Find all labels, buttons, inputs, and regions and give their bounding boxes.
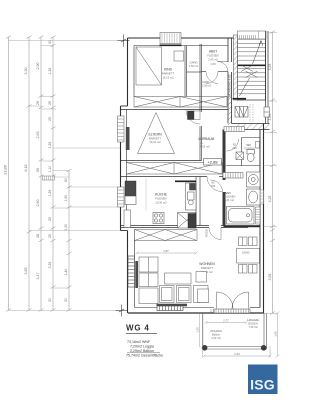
svg-text:PARKETT: PARKETT — [162, 72, 175, 76]
svg-text:6,18: 6,18 — [24, 165, 28, 172]
ISG logo — [248, 365, 278, 395]
outer wall left lower segment — [127, 231, 129, 314]
wall stair landing bottom y123.5 — [232, 124, 270, 130]
bath sink — [247, 189, 261, 205]
wall Kind/Eltern y109.5 — [121, 109, 229, 111]
window W5 bottom wall (Wohnen) — [157, 306, 183, 311]
living room door arc — [209, 228, 221, 240]
Abst room label — [207, 50, 218, 67]
outer wall left upper segment — [127, 38, 129, 106]
Kind room label — [162, 68, 175, 80]
stair bottom dark edge — [233, 98, 247, 100]
svg-text:75,74m2 Gesamtfläche: 75,74m2 Gesamtfläche — [126, 354, 163, 358]
left dimension chain line 4 — [51, 36, 56, 312]
svg-text:1,25: 1,25 — [195, 327, 199, 333]
french door threshold band bottom wall — [211, 309, 250, 313]
dimension extension line bottom — [9, 310, 117, 312]
svg-text:5,01 m2: 5,01 m2 — [225, 198, 235, 202]
right chain extension lines — [264, 33, 278, 314]
towel radiator — [256, 207, 261, 224]
radiator corridor top — [224, 127, 245, 132]
staircase treads — [238, 39, 266, 94]
chain connectors — [29, 46, 118, 289]
svg-text:2,60: 2,60 — [36, 200, 40, 207]
dining chairs top — [239, 237, 258, 246]
sum rule — [127, 352, 160, 354]
WC vent window — [256, 142, 260, 149]
svg-text:10,30 m2: 10,30 m2 — [155, 201, 167, 205]
kitchen east wall — [196, 177, 200, 226]
radiator bar Wohnen (dark) — [135, 261, 138, 288]
radiator bath — [223, 173, 243, 179]
svg-text:13,91 m2: 13,91 m2 — [149, 140, 161, 144]
right lower dim line — [276, 312, 280, 358]
smoke vent dashed lines — [250, 104, 253, 122]
svg-text:ISG: ISG — [250, 377, 275, 393]
svg-text:1,50: 1,50 — [210, 62, 216, 66]
svg-text:1,40: 1,40 — [273, 331, 277, 337]
svg-text:+2,88: +2,88 — [207, 160, 218, 165]
staircase outline — [238, 35, 266, 100]
Kind table square — [174, 51, 184, 61]
outer wall bottom — [128, 312, 264, 314]
landing bottom wall hatch — [234, 124, 270, 130]
sideboard band (crossed) living — [135, 230, 198, 241]
svg-text:60: 60 — [64, 178, 68, 182]
mini window symbol in dim area — [43, 176, 55, 180]
WC left wall — [241, 138, 243, 167]
armchair 1 — [196, 272, 207, 283]
window right wall bath — [260, 190, 264, 204]
party wall to staircase (right upper) — [228, 38, 232, 124]
staircase mid landing dark line — [238, 65, 266, 67]
shaft box cluster in landing — [235, 107, 248, 118]
kitchen dark appliance — [188, 214, 196, 229]
svg-text:KIND: KIND — [164, 68, 173, 72]
svg-text:25: 25 — [48, 101, 52, 105]
svg-text:1,35: 1,35 — [48, 142, 52, 149]
Loggia label — [247, 318, 259, 329]
svg-text:2,43: 2,43 — [234, 352, 240, 356]
left wall lower inner face — [134, 230, 136, 308]
svg-text:KÜCHE: KÜCHE — [155, 193, 168, 197]
svg-text:PARKETT: PARKETT — [149, 137, 162, 141]
radiator bar Eltern (dark) — [126, 127, 130, 150]
shaft box corridor — [236, 152, 244, 160]
outer wall top inner face — [134, 45, 228, 47]
dimension cross marker top-left — [118, 35, 130, 47]
svg-text:FLIESEN: FLIESEN — [155, 197, 166, 201]
loggia right edge — [264, 313, 267, 349]
svg-text:25: 25 — [48, 117, 52, 121]
svg-text:25: 25 — [48, 217, 52, 221]
stove 4 burners — [153, 213, 164, 224]
wall kitchen/living y226.5 with door opening — [121, 226, 261, 228]
kitchen lower counter hatched — [178, 213, 197, 229]
staircase top wall band — [238, 31, 267, 39]
svg-text:BODEN: BODEN — [248, 322, 257, 326]
floor level box +2,88 — [204, 159, 222, 166]
coffee table — [165, 273, 192, 284]
left wall middle inner face — [126, 110, 128, 226]
kitchen interior dim line — [145, 178, 147, 211]
Kueche door arc — [207, 177, 222, 192]
loggia post left — [202, 345, 208, 351]
kitchen fridge block dark — [125, 181, 136, 205]
left dimension chain line 5 — [67, 169, 72, 312]
right dimension chain — [270, 31, 275, 315]
svg-text:WOHNEN: WOHNEN — [199, 262, 215, 266]
svg-text:3,47: 3,47 — [36, 273, 40, 280]
staircase left wall hatched band — [234, 35, 238, 100]
dimension cross marker bottom-left — [116, 305, 128, 317]
left dimension chain line 2 — [27, 36, 32, 312]
svg-text:1,10: 1,10 — [48, 166, 52, 173]
svg-text:1,55: 1,55 — [268, 114, 272, 121]
Eltern bottom wall y160.5 — [121, 160, 202, 162]
outer wall right lower — [260, 124, 264, 314]
svg-text:30: 30 — [48, 298, 52, 302]
svg-text:WOHNEN: WOHNEN — [210, 329, 222, 333]
svg-text:3,30: 3,30 — [24, 68, 28, 75]
loggia dim line horizontal — [205, 321, 248, 324]
svg-text:LOGGIA: LOGGIA — [247, 318, 259, 322]
Vorraum label — [198, 137, 215, 148]
svg-text:2,90: 2,90 — [36, 63, 40, 70]
wall jog at y106 — [121, 105, 128, 107]
left dimension chain line 3 — [39, 36, 44, 312]
svg-text:30: 30 — [64, 298, 68, 302]
svg-text:ELTERN: ELTERN — [148, 133, 162, 137]
bathtub — [227, 207, 255, 225]
dining table — [237, 249, 260, 264]
svg-text:50: 50 — [36, 168, 40, 172]
svg-text:2,05 m2: 2,05 m2 — [202, 85, 212, 88]
Eltern door arc — [186, 110, 200, 124]
corridor left wall — [200, 72, 202, 161]
window sill dark living — [157, 304, 188, 307]
loggia area small label — [210, 329, 222, 340]
svg-text:FLIESEN: FLIESEN — [207, 54, 218, 58]
svg-text:BAD: BAD — [225, 191, 232, 195]
svg-text:FL.: FL. — [200, 141, 204, 145]
svg-text:WG 4: WG 4 — [126, 324, 150, 333]
left wall upper inner face — [133, 46, 135, 97]
svg-text:2,63: 2,63 — [36, 132, 40, 139]
wardrobe band Kind (crossed) — [134, 97, 227, 108]
svg-text:160/90: 160/90 — [242, 252, 250, 255]
svg-text:Balkon: Balkon — [212, 333, 220, 337]
svg-text:VORRAUM: VORRAUM — [198, 137, 215, 141]
svg-text:3,55: 3,55 — [268, 274, 272, 281]
window W1 in top wall — [160, 33, 182, 46]
wall Eltern/Kueche y176.5 with door opening — [121, 176, 224, 178]
loggia railing bottom — [203, 347, 267, 350]
svg-text:73,16m2 WNF: 73,16m2 WNF — [127, 340, 151, 344]
svg-text:25: 25 — [36, 101, 40, 105]
dimension extension line top — [9, 40, 119, 42]
loggia bottom dim line — [203, 313, 272, 358]
svg-text:1,50: 1,50 — [64, 224, 68, 231]
wall jog at y230.5 — [121, 230, 128, 232]
interior wall Gard right — [200, 44, 202, 72]
Bad label — [225, 191, 236, 202]
french doors double arc — [217, 292, 249, 309]
svg-text:16,15 m2: 16,15 m2 — [162, 76, 174, 80]
interior dim line living room — [136, 252, 198, 255]
dining chairs bottom — [239, 265, 258, 274]
corridor door arc — [227, 139, 239, 151]
svg-text:1,57: 1,57 — [163, 249, 169, 253]
svg-text:3,85: 3,85 — [24, 268, 28, 275]
Kueche label — [155, 193, 168, 205]
svg-text:WOHNUNG 4.03: WOHNUNG 4.03 — [227, 74, 231, 97]
wardrobe band Eltern (crossed) — [127, 163, 223, 175]
svg-text:GARD: GARD — [189, 61, 197, 65]
loggia left dim line — [199, 313, 201, 347]
svg-text:1,40: 1,40 — [64, 269, 68, 276]
WC bottom wall — [226, 165, 260, 167]
svg-text:1,50 m2: 1,50 m2 — [189, 65, 199, 68]
staircase run line with break — [240, 41, 263, 97]
loggia post right — [261, 345, 267, 351]
couch left column — [139, 257, 158, 304]
svg-text:25: 25 — [48, 234, 52, 238]
WC label — [245, 143, 255, 150]
svg-text:90/230: 90/230 — [205, 228, 209, 236]
svg-text:3,25: 3,25 — [268, 64, 272, 71]
svg-text:38: 38 — [36, 234, 40, 238]
staircase right wall — [266, 31, 269, 124]
left dimension chain line 1 (total 13,86) — [6, 36, 11, 312]
dimension extension line y232 — [29, 230, 121, 232]
outer wall top — [128, 37, 237, 39]
Gard bottom wall — [187, 71, 202, 73]
svg-text:PARKETT: PARKETT — [201, 266, 214, 270]
loggia left edge — [202, 313, 204, 348]
Eltern bed triangle — [138, 113, 175, 154]
chimney block — [188, 111, 201, 120]
radiator right wall landing — [264, 107, 270, 117]
WC top wall — [242, 137, 261, 139]
svg-text:ABST: ABST — [209, 50, 217, 54]
svg-text:FLIESEN: FLIESEN — [225, 195, 236, 199]
apartment entry door arc — [218, 62, 229, 73]
svg-text:2,77: 2,77 — [223, 319, 229, 323]
svg-text:3,25: 3,25 — [268, 196, 272, 203]
Abst bottom wall with door opening — [202, 71, 229, 73]
kitchen counter top dark line — [175, 180, 196, 182]
Wohnen label — [199, 262, 215, 274]
window W4 left wall (Wohnen) — [128, 256, 135, 287]
svg-text:13,86: 13,86 — [3, 164, 8, 175]
svg-text:1,39: 1,39 — [48, 190, 52, 197]
staircase break cross marks — [241, 65, 258, 78]
svg-text:230: 230 — [211, 184, 216, 188]
Abst door swing arcs — [206, 72, 218, 84]
couch bottom row — [160, 286, 209, 303]
svg-text:7,29m2 Loggia: 7,29m2 Loggia — [130, 344, 154, 348]
svg-text:7,62 m2: 7,62 m2 — [200, 144, 210, 148]
svg-text:2,43 m2: 2,43 m2 — [208, 58, 218, 62]
Kind room wardrobe diagonal — [136, 47, 162, 85]
armchair 2 — [198, 289, 209, 303]
svg-text:1,35: 1,35 — [48, 68, 52, 75]
svg-text:2,29m2 Balkon: 2,29m2 Balkon — [130, 349, 154, 353]
Eltern room label — [148, 133, 162, 145]
interior wall Kind right — [185, 46, 187, 97]
bath door arc — [211, 180, 223, 192]
corridor/bath wall dark band — [223, 130, 226, 181]
washing machine — [247, 172, 261, 187]
party wall hatch — [228, 97, 232, 131]
kitchen cupboard outline — [124, 210, 131, 228]
svg-text:7,29 m2: 7,29 m2 — [248, 325, 258, 329]
title underline — [126, 332, 157, 334]
window W2 left wall (Eltern) — [118, 116, 125, 142]
kitchen counter right with sink — [186, 183, 197, 210]
svg-text:1,90: 1,90 — [64, 195, 68, 202]
WC toilet — [247, 150, 255, 162]
bath bottom wall dark — [224, 226, 261, 228]
outer wall left middle segment — [120, 106, 122, 231]
bottom wall inner face — [135, 307, 261, 309]
window W3 left wall (Kueche) — [118, 187, 125, 207]
svg-text:2,35: 2,35 — [48, 262, 52, 269]
dimension extension line mid y148 — [53, 147, 121, 149]
living door leaf — [220, 228, 222, 240]
svg-text:2,29 m2: 2,29 m2 — [211, 336, 221, 340]
